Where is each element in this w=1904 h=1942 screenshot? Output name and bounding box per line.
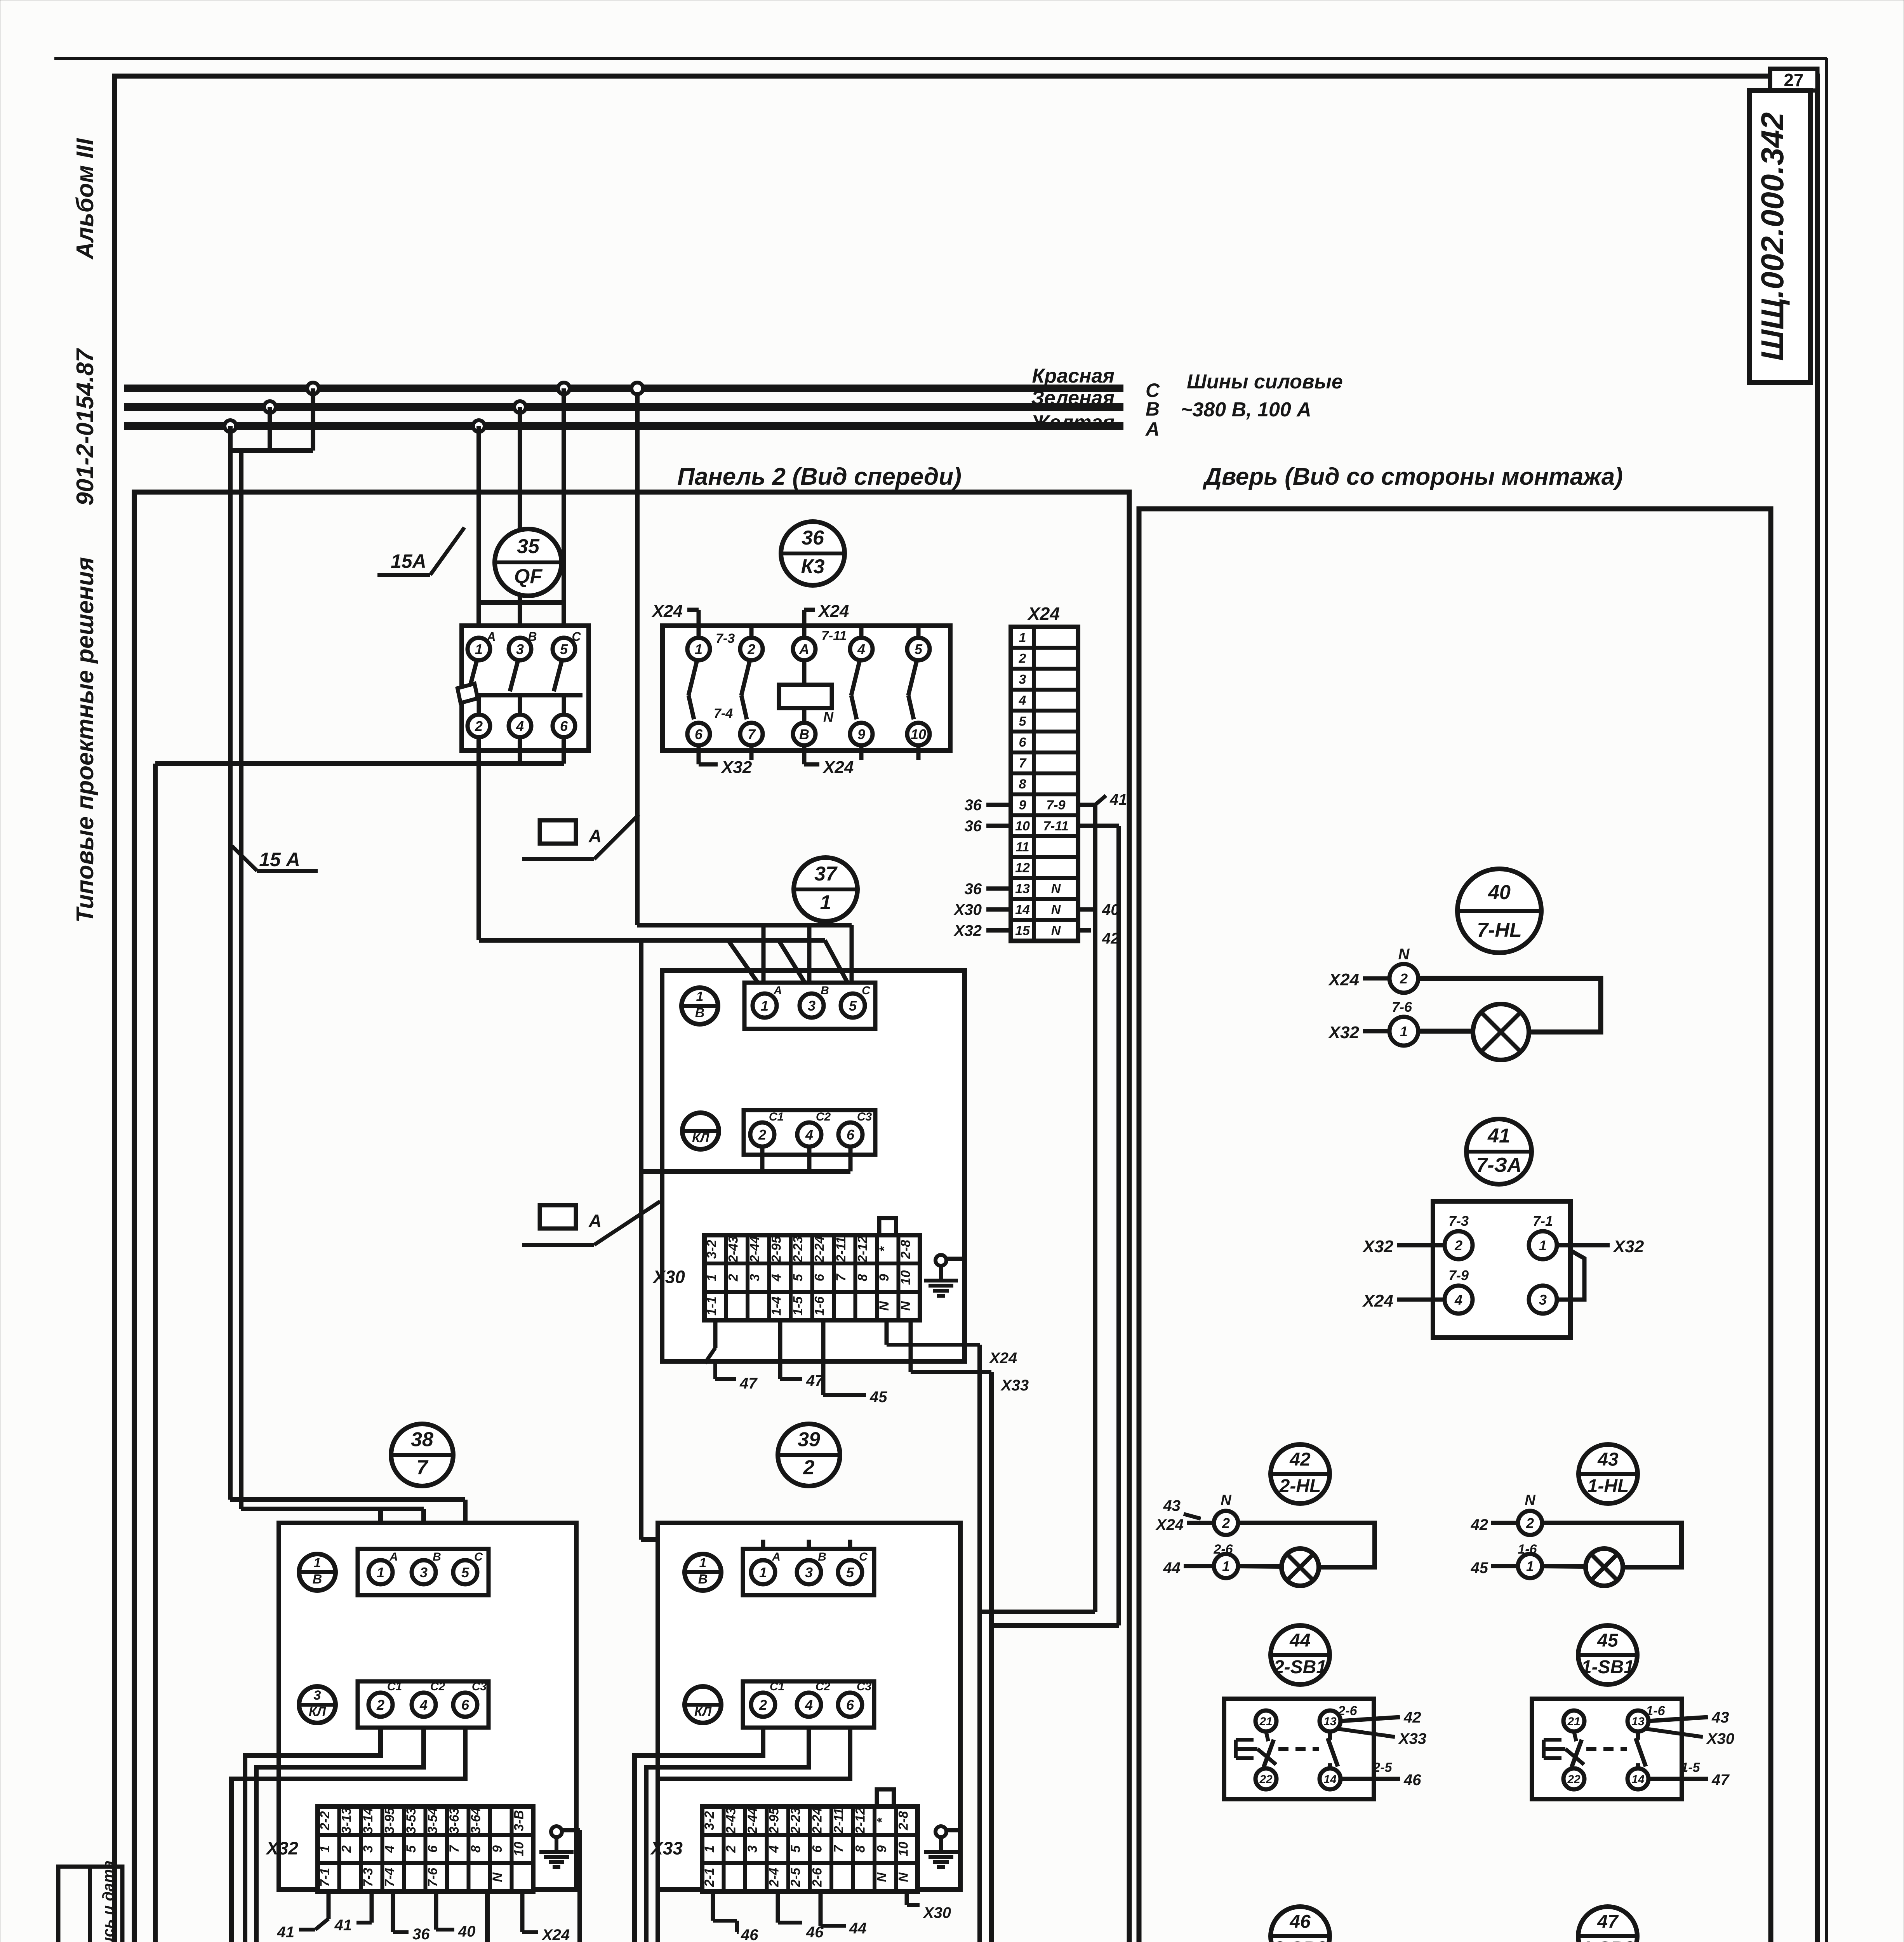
svg-text:7-6: 7-6 [425,1867,440,1887]
svg-text:2: 2 [726,1274,741,1282]
svg-text:2-24: 2-24 [810,1807,824,1834]
svg-text:7-6: 7-6 [1392,999,1412,1015]
svg-text:КЛ: КЛ [309,1704,326,1719]
svg-text:С1: С1 [387,1680,402,1693]
svg-text:21: 21 [1259,1715,1272,1728]
svg-text:Х32: Х32 [265,1838,298,1858]
svg-text:1-5: 1-5 [1681,1760,1700,1775]
svg-text:2-HL: 2-HL [1279,1476,1321,1497]
svg-text:Х32: Х32 [720,758,752,777]
svg-text:5: 5 [915,641,923,657]
svg-text:3-95: 3-95 [382,1807,397,1834]
svg-text:7: 7 [417,1456,429,1479]
svg-text:12: 12 [1015,861,1030,875]
svg-text:1: 1 [761,998,769,1014]
svg-text:3-2: 3-2 [702,1811,717,1830]
svg-text:КЛ: КЛ [692,1131,709,1145]
svg-text:С3: С3 [472,1680,487,1693]
svg-text:2: 2 [1222,1515,1230,1531]
svg-text:6: 6 [695,726,703,742]
svg-text:3: 3 [1019,672,1026,687]
svg-text:4: 4 [516,718,524,734]
svg-text:2-95: 2-95 [769,1236,784,1263]
svg-text:43: 43 [1597,1450,1619,1470]
svg-text:7-HL: 7-HL [1477,919,1522,941]
svg-text:1: 1 [695,641,702,657]
svg-text:7-1: 7-1 [318,1868,332,1887]
svg-text:1-5: 1-5 [791,1296,805,1316]
svg-text:В: В [821,984,829,997]
svg-text:10: 10 [896,1842,911,1857]
svg-text:Х32: Х32 [1328,1023,1360,1042]
svg-text:Зеленая: Зеленая [1031,387,1115,409]
svg-text:5: 5 [849,998,857,1014]
svg-text:~380 В, 100 А: ~380 В, 100 А [1181,398,1311,421]
svg-text:1-4: 1-4 [769,1296,784,1316]
svg-text:7: 7 [748,726,756,742]
svg-text:7-3: 7-3 [361,1868,376,1887]
svg-text:3: 3 [516,641,524,657]
svg-text:2: 2 [1019,651,1026,666]
svg-text:2-12: 2-12 [855,1236,870,1263]
svg-text:В: В [1146,398,1160,420]
svg-text:N: N [1525,1492,1536,1509]
svg-text:43: 43 [1163,1497,1181,1514]
svg-text:4: 4 [1019,693,1026,708]
svg-text:6: 6 [560,718,568,734]
svg-text:Альбом III: Альбом III [72,138,99,260]
svg-text:А: А [389,1550,398,1563]
svg-text:В: В [433,1550,441,1563]
svg-text:36: 36 [412,1926,430,1942]
svg-text:Х33: Х33 [650,1838,683,1858]
svg-text:Красная: Красная [1032,365,1115,387]
svg-text:2: 2 [758,1127,766,1143]
svg-text:2-44: 2-44 [748,1236,762,1263]
svg-text:Подпись и дата: Подпись и дата [100,1860,117,1942]
svg-text:Типовые проектные решения: Типовые проектные решения [72,557,99,923]
svg-text:Х30: Х30 [652,1267,685,1287]
svg-text:7-9: 7-9 [1046,798,1065,813]
svg-text:С1: С1 [770,1680,784,1693]
svg-text:7: 7 [831,1845,846,1853]
svg-text:1: 1 [704,1274,719,1281]
svg-text:С2: С2 [816,1680,831,1693]
svg-text:Х24: Х24 [651,602,683,621]
svg-text:N: N [1398,946,1410,963]
svg-text:N: N [898,1301,913,1311]
svg-text:1-HL: 1-HL [1588,1476,1629,1497]
svg-text:3: 3 [361,1845,376,1853]
svg-text:1-6: 1-6 [1646,1704,1665,1718]
svg-text:42: 42 [1471,1516,1488,1533]
svg-text:3: 3 [805,1564,813,1580]
svg-text:Х32: Х32 [953,922,982,940]
svg-text:35: 35 [517,535,540,558]
svg-text:2-44: 2-44 [745,1807,760,1834]
svg-text:Х32: Х32 [1362,1237,1394,1256]
svg-text:7-1: 7-1 [1533,1213,1553,1229]
svg-text:2-23: 2-23 [791,1236,805,1263]
svg-text:46: 46 [741,1926,758,1942]
svg-text:2-8: 2-8 [896,1811,911,1831]
svg-text:41: 41 [1109,791,1127,808]
svg-text:2-95: 2-95 [767,1807,781,1834]
svg-text:45: 45 [1471,1559,1488,1577]
svg-text:7: 7 [447,1845,462,1853]
svg-text:А: А [772,1550,781,1563]
svg-text:N: N [1051,923,1061,938]
svg-text:13: 13 [1323,1715,1337,1728]
svg-text:5: 5 [560,641,568,657]
svg-text:2-5: 2-5 [788,1867,803,1887]
svg-text:43: 43 [1711,1709,1729,1726]
svg-text:А: А [486,630,496,644]
svg-text:2-6: 2-6 [810,1867,824,1887]
svg-text:5: 5 [788,1845,803,1853]
svg-text:2-43: 2-43 [723,1807,738,1834]
svg-text:А: А [588,1211,602,1231]
svg-text:Желтая: Желтая [1030,411,1115,434]
svg-text:N: N [823,709,834,725]
svg-text:С: С [474,1550,483,1563]
svg-text:А: А [799,641,809,657]
svg-text:2: 2 [759,1697,767,1713]
svg-text:В: В [695,1006,705,1020]
svg-text:7: 7 [834,1273,849,1281]
svg-text:47: 47 [1597,1912,1619,1932]
svg-text:С: С [862,984,871,997]
svg-text:N: N [875,1872,889,1882]
svg-text:Панель 2 (Вид спереди): Панель 2 (Вид спереди) [677,463,962,490]
svg-text:3-2: 3-2 [704,1240,719,1259]
svg-text:2: 2 [1400,971,1408,987]
svg-text:7-4: 7-4 [714,706,733,721]
svg-text:4: 4 [382,1845,397,1853]
svg-text:901-2-0154.87: 901-2-0154.87 [72,348,99,506]
svg-text:7-9: 7-9 [1448,1267,1469,1283]
svg-text:Х24: Х24 [822,758,854,777]
svg-text:1: 1 [696,989,704,1004]
svg-text:2-6: 2-6 [1337,1704,1357,1718]
svg-text:1: 1 [1539,1237,1547,1253]
svg-text:42: 42 [1289,1450,1311,1470]
svg-text:8: 8 [853,1845,868,1853]
svg-text:9: 9 [875,1845,889,1853]
svg-text:6: 6 [461,1697,469,1713]
svg-text:6: 6 [425,1845,440,1853]
svg-text:N: N [896,1872,911,1882]
svg-text:40: 40 [458,1923,476,1940]
svg-text:С2: С2 [430,1680,445,1693]
svg-text:Х24: Х24 [989,1350,1017,1367]
svg-text:Х24: Х24 [817,602,849,621]
svg-text:2-SB2: 2-SB2 [1273,1938,1327,1942]
svg-text:47: 47 [739,1375,758,1392]
svg-text:7-11: 7-11 [1043,819,1069,834]
svg-text:10: 10 [911,726,926,742]
svg-text:Х30: Х30 [953,901,982,919]
svg-text:41: 41 [334,1917,352,1934]
svg-text:2-5: 2-5 [1372,1760,1392,1775]
svg-text:27: 27 [1784,70,1803,90]
svg-text:3-14: 3-14 [361,1807,376,1834]
svg-text:8: 8 [855,1274,870,1281]
svg-text:1: 1 [759,1564,767,1580]
svg-text:2: 2 [1454,1237,1462,1253]
svg-text:1: 1 [820,891,831,914]
svg-text:Х33: Х33 [1000,1377,1029,1394]
svg-text:6: 6 [810,1845,824,1853]
svg-text:4: 4 [1454,1292,1462,1308]
svg-text:С1: С1 [769,1110,784,1123]
svg-text:7-11: 7-11 [821,628,847,643]
svg-text:Х30: Х30 [1706,1730,1734,1747]
svg-text:2: 2 [475,718,483,734]
svg-text:Х33: Х33 [1398,1730,1426,1747]
svg-text:А: А [1145,418,1160,440]
svg-text:9: 9 [857,726,865,742]
svg-text:2-12: 2-12 [853,1807,868,1834]
svg-text:44: 44 [1289,1631,1310,1651]
svg-text:6: 6 [846,1697,854,1713]
svg-text:Шины силовые: Шины силовые [1187,371,1343,393]
svg-text:В: В [799,726,809,742]
svg-text:К3: К3 [801,555,825,578]
svg-text:13: 13 [1015,882,1030,896]
svg-text:13: 13 [1631,1715,1645,1728]
svg-text:Дверь (Вид со стороны монтажа): Дверь (Вид со стороны монтажа) [1202,463,1623,490]
svg-text:6: 6 [847,1127,855,1143]
svg-text:2-SB1: 2-SB1 [1273,1657,1327,1677]
svg-text:36: 36 [965,881,982,898]
svg-text:11: 11 [1015,840,1029,854]
svg-text:2-11: 2-11 [834,1237,849,1263]
svg-text:С2: С2 [816,1110,831,1123]
svg-text:2: 2 [723,1845,738,1853]
svg-text:В: В [698,1572,708,1587]
svg-text:3: 3 [808,998,816,1014]
svg-text:4: 4 [805,1127,813,1143]
svg-text:9: 9 [877,1274,892,1281]
svg-text:С3: С3 [857,1680,872,1693]
svg-text:Х24: Х24 [541,1926,570,1942]
svg-text:С3: С3 [857,1110,872,1123]
svg-text:7-ЗА: 7-ЗА [1476,1154,1521,1176]
svg-text:46: 46 [1403,1771,1421,1789]
svg-text:2-1: 2-1 [702,1868,717,1887]
svg-text:QF: QF [514,565,543,588]
svg-text:4: 4 [419,1697,428,1713]
svg-text:5: 5 [461,1564,469,1580]
svg-text:22: 22 [1567,1773,1581,1786]
svg-text:3-В: 3-В [511,1810,526,1831]
svg-text:1: 1 [1526,1558,1534,1574]
svg-text:КЛ: КЛ [694,1704,712,1719]
svg-text:N: N [1221,1492,1232,1509]
svg-text:В: В [528,630,537,644]
svg-text:ШЩ.002.000.342: ШЩ.002.000.342 [1755,112,1790,361]
svg-text:2-23: 2-23 [788,1807,803,1834]
svg-text:3: 3 [745,1845,760,1853]
svg-text:Х24: Х24 [1328,970,1359,989]
svg-text:44: 44 [849,1920,867,1937]
svg-text:N: N [1051,882,1061,896]
svg-text:40: 40 [1488,881,1511,904]
svg-text:5: 5 [791,1274,805,1281]
svg-text:*: * [877,1246,892,1252]
svg-text:47: 47 [1711,1771,1730,1789]
svg-text:1: 1 [314,1556,321,1570]
svg-text:5: 5 [404,1845,419,1853]
svg-text:45: 45 [869,1389,887,1406]
svg-text:41: 41 [1487,1124,1510,1147]
svg-text:1-SB1: 1-SB1 [1581,1657,1634,1677]
svg-text:1: 1 [1019,630,1026,645]
svg-text:3-54: 3-54 [425,1807,440,1834]
svg-text:3-53: 3-53 [404,1807,419,1834]
svg-text:15: 15 [1015,923,1030,938]
svg-text:1: 1 [475,641,483,657]
svg-text:46: 46 [1289,1912,1311,1932]
svg-text:2: 2 [747,641,755,657]
svg-text:N: N [1051,903,1061,917]
svg-text:2-4: 2-4 [767,1868,781,1887]
svg-text:44: 44 [1163,1559,1181,1577]
svg-text:10: 10 [898,1270,913,1285]
svg-text:10: 10 [511,1842,526,1857]
svg-text:41: 41 [277,1924,295,1941]
svg-text:1: 1 [318,1845,332,1853]
svg-text:1: 1 [1400,1023,1408,1039]
svg-text:1-SB2: 1-SB2 [1581,1938,1634,1942]
svg-text:1: 1 [702,1845,717,1853]
svg-text:3-64: 3-64 [468,1807,483,1834]
svg-text:*: * [875,1817,889,1823]
svg-text:1: 1 [1222,1558,1230,1574]
svg-text:2: 2 [803,1456,815,1479]
svg-text:4: 4 [767,1845,781,1853]
svg-text:А: А [588,826,602,846]
svg-text:14: 14 [1323,1773,1337,1786]
svg-text:3: 3 [748,1274,762,1281]
svg-text:6: 6 [812,1274,827,1281]
svg-text:9: 9 [490,1845,505,1853]
svg-text:37: 37 [814,863,838,885]
svg-text:Х32: Х32 [1612,1237,1644,1256]
svg-text:38: 38 [411,1429,433,1451]
svg-text:42: 42 [1403,1709,1421,1726]
svg-text:6: 6 [1019,735,1027,750]
svg-text:2: 2 [339,1845,354,1853]
svg-text:15 А: 15 А [259,849,300,870]
svg-text:2: 2 [376,1697,384,1713]
svg-text:1: 1 [377,1564,384,1580]
svg-text:14: 14 [1015,903,1030,917]
svg-text:2: 2 [1526,1515,1534,1531]
svg-text:8: 8 [468,1845,483,1853]
svg-text:9: 9 [1019,798,1026,813]
svg-text:14: 14 [1631,1773,1645,1786]
svg-text:1-6: 1-6 [812,1296,827,1316]
svg-text:Х24: Х24 [1362,1291,1393,1310]
svg-text:С: С [572,630,581,644]
svg-text:2-8: 2-8 [898,1240,913,1259]
svg-text:3: 3 [314,1688,321,1703]
svg-text:10: 10 [1015,819,1030,834]
svg-text:1: 1 [699,1556,707,1570]
svg-text:4: 4 [805,1697,813,1713]
svg-text:3: 3 [1539,1292,1547,1308]
svg-text:36: 36 [802,527,824,549]
svg-text:3: 3 [420,1564,428,1580]
svg-text:Х30: Х30 [923,1904,951,1921]
svg-text:22: 22 [1259,1773,1273,1786]
svg-text:5: 5 [1019,714,1027,729]
svg-text:3-13: 3-13 [339,1807,354,1834]
svg-text:N: N [490,1872,505,1882]
svg-text:21: 21 [1567,1715,1580,1728]
svg-text:2-11: 2-11 [831,1808,846,1834]
svg-text:2-24: 2-24 [812,1236,827,1263]
svg-text:36: 36 [965,797,982,814]
svg-text:Х24: Х24 [1027,604,1060,624]
svg-text:45: 45 [1597,1631,1619,1651]
svg-text:С: С [859,1550,868,1563]
svg-text:В: В [818,1550,826,1563]
svg-text:1-1: 1-1 [704,1296,719,1316]
svg-text:39: 39 [798,1429,820,1451]
svg-text:4: 4 [769,1274,784,1282]
svg-text:N: N [877,1301,892,1311]
svg-text:7-4: 7-4 [382,1868,397,1887]
svg-text:36: 36 [965,818,982,835]
svg-text:7: 7 [1019,756,1027,771]
svg-text:5: 5 [846,1564,854,1580]
svg-text:4: 4 [857,641,865,657]
svg-text:2-2: 2-2 [318,1811,332,1831]
svg-text:3-63: 3-63 [447,1807,462,1834]
svg-text:7-3: 7-3 [1448,1213,1469,1229]
svg-text:7-3: 7-3 [716,631,735,646]
svg-text:2-43: 2-43 [726,1236,741,1263]
svg-text:Х24: Х24 [1155,1516,1184,1533]
svg-text:А: А [773,984,782,997]
svg-text:8: 8 [1019,777,1026,792]
svg-text:15А: 15А [391,550,426,572]
svg-text:В: В [313,1572,322,1587]
